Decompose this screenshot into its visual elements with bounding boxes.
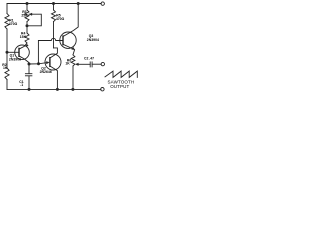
R6 wiper arrow to C2 xyxy=(75,63,79,66)
svg-text:15K: 15K xyxy=(20,35,27,39)
Q1 emitter arrowhead (PNP) xyxy=(26,44,29,47)
wire: C1 node to Q3-base tap node xyxy=(29,63,39,65)
terminal: ground return output (open circle) xyxy=(101,88,104,91)
svg-text:25K: 25K xyxy=(21,14,28,18)
wire: R5 bottom down to B2 jog xyxy=(53,22,55,48)
svg-text:C2 .47: C2 .47 xyxy=(84,56,94,60)
Q2 base bar xyxy=(49,58,51,67)
resistor R1 xyxy=(5,14,9,30)
wire: R3 bottom to wiper node xyxy=(26,22,28,26)
terminal: sawtooth output (open circle) xyxy=(101,62,104,65)
wire: wiper to C2 xyxy=(78,63,90,65)
svg-text:470Ω: 470Ω xyxy=(56,17,65,21)
capacitor C2 left plate xyxy=(89,62,91,67)
wire: base node down to R2 xyxy=(6,52,8,68)
wire: junction down to R4 xyxy=(26,26,28,33)
wire: C1 to ground rail xyxy=(28,76,30,89)
Q3 base bar xyxy=(62,36,64,45)
wire: wiper tie loop right segment xyxy=(27,14,41,26)
svg-text:1K: 1K xyxy=(3,66,8,70)
svg-text:2N3906: 2N3906 xyxy=(9,58,21,62)
node: Q3 base tap junction xyxy=(37,62,40,65)
transistor Q1 2N3906 body circle xyxy=(15,45,30,60)
transistor Q2 2N2646 body circle xyxy=(45,54,61,70)
wire: rail down to R5 xyxy=(53,4,55,11)
R3 wiper arrow xyxy=(29,13,32,15)
wire: rail down to R3 xyxy=(26,4,28,11)
node: R3/R4 wiper junction xyxy=(26,24,29,27)
resistor R2 xyxy=(5,68,9,80)
wire: C1 node down to capacitor xyxy=(28,64,30,74)
capacitor C1 bottom plate xyxy=(25,75,32,77)
wire: Q1 collector lead down to C1 node xyxy=(19,56,29,64)
wire: Q2 base-one lead down to ground xyxy=(50,66,58,89)
capacitor C2 right plate xyxy=(91,62,93,67)
node: C1 ground junction xyxy=(28,88,31,91)
wire: R4 to Q1 emitter xyxy=(19,43,27,49)
potentiometer R3 (rheostat) element xyxy=(25,10,29,22)
wire: Q1 base lead xyxy=(7,51,19,53)
svg-text:1K: 1K xyxy=(65,62,70,66)
wire: R1 bottom to Q1 base node xyxy=(6,29,8,52)
wire: tap node to Q2 emitter arrow xyxy=(39,63,46,64)
Q2 emitter arrowhead (UJT) xyxy=(46,61,50,64)
svg-text:OUTPUT: OUTPUT xyxy=(110,84,129,89)
potentiometer R6 (output level) element xyxy=(71,55,75,66)
Q1 base bar xyxy=(18,48,20,56)
terminal: +V supply (open circle) xyxy=(101,2,104,5)
node: Q2 B1 ground junction xyxy=(56,88,59,91)
wire: R2 bottom to ground rail xyxy=(6,80,8,90)
node: rail junction over R3 xyxy=(26,2,29,5)
svg-text:470Ω: 470Ω xyxy=(9,22,18,26)
resistor R4 xyxy=(25,33,29,43)
wire: Q3 collector lead to +V rail xyxy=(63,4,78,37)
wire: left vertical bus (rail to R1) xyxy=(6,4,8,14)
wire: bottom ground rail xyxy=(7,88,101,90)
wire: Q3 emitter lead down xyxy=(63,44,75,55)
node: C1 / Q1 collector junction xyxy=(28,63,31,66)
transistor Q3 2N3904 body circle xyxy=(60,32,76,48)
node: R6 ground junction xyxy=(71,88,74,91)
node: rail junction over R5 xyxy=(52,2,55,5)
svg-text:.1: .1 xyxy=(20,83,23,87)
Q3 emitter arrowhead (NPN) xyxy=(71,47,75,50)
node: Q1 base junction on divider xyxy=(6,51,9,54)
wire: C2 to output terminal xyxy=(92,63,101,65)
node: rail junction over Q3 collector xyxy=(77,2,80,5)
sawtooth waveform pictograph xyxy=(105,71,137,77)
wire: top +V rail xyxy=(7,3,101,5)
resistor R5 xyxy=(52,10,56,22)
wire: Q3 base line with crossover hop xyxy=(38,38,63,64)
wire: R6 bottom to ground rail xyxy=(72,66,74,89)
capacitor C1 top plate xyxy=(25,73,32,75)
wire: Q2 base-two lead up xyxy=(50,48,58,58)
svg-text:2N3904: 2N3904 xyxy=(87,38,99,42)
svg-text:2N2646: 2N2646 xyxy=(40,70,52,74)
